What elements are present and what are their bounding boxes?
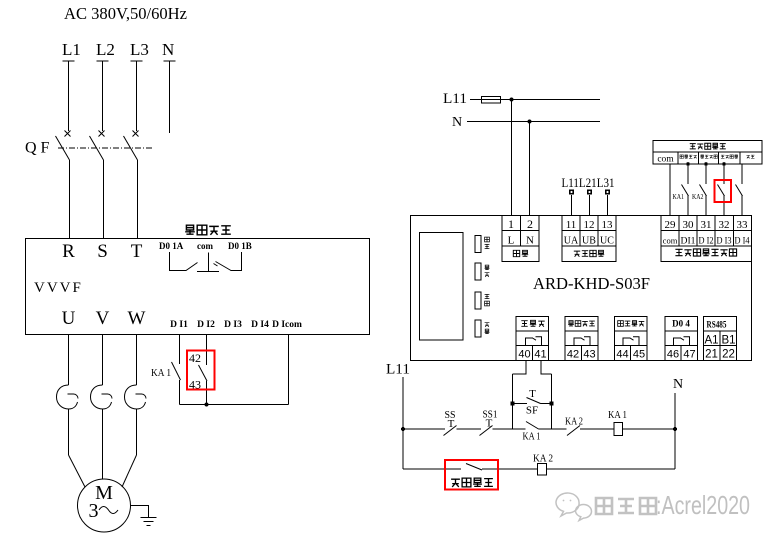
node L3 terminal (131, 61, 143, 131)
svg-text:T: T (131, 241, 143, 262)
svg-text:D I3: D I3 (717, 237, 732, 247)
svg-text:D0 1B: D0 1B (228, 241, 252, 251)
svg-text:T: T (486, 418, 493, 430)
breaker QF pole 3 (124, 131, 139, 239)
svg-text:33: 33 (737, 219, 749, 231)
wire L11 to 11 (571, 195, 573, 216)
svg-text:N: N (162, 40, 174, 59)
svg-text:KA2: KA2 (692, 192, 704, 201)
svg-text:KA 2: KA 2 (565, 416, 583, 428)
svg-text:45: 45 (633, 349, 645, 361)
motor tilde (99, 507, 118, 514)
svg-text:40: 40 (518, 349, 530, 361)
svg-text:com: com (663, 236, 678, 246)
svg-text:11: 11 (566, 219, 577, 231)
wire N feed (467, 121, 600, 123)
wire W phase (136, 335, 138, 385)
svg-text:D I2: D I2 (197, 320, 215, 330)
svg-text:D Icom: D Icom (272, 320, 302, 330)
wire from terminal 40 (513, 361, 527, 375)
rail N (674, 393, 676, 469)
svg-text:32: 32 (719, 219, 730, 231)
button 3 (475, 292, 481, 309)
svg-text:KA 2: KA 2 (533, 453, 553, 465)
rung wire segment 5 (580, 428, 614, 430)
svg-text:W: W (128, 308, 146, 329)
junction dot L11 rung (401, 427, 405, 431)
contact SS1 (480, 426, 493, 436)
svg-text:L1: L1 (62, 40, 81, 59)
svg-text:D0 4: D0 4 (672, 319, 690, 329)
wire from terminal 41 (541, 361, 552, 375)
CT hook V (91, 385, 113, 409)
junction dot N rung (673, 427, 677, 431)
wire DI2 input with KA2 contact (705, 164, 707, 216)
label measure voltage (574, 250, 604, 256)
svg-text:S: S (97, 241, 108, 262)
svg-text:T: T (448, 418, 455, 430)
button label 3 (485, 294, 490, 306)
label fault output (guzhang shuchu) (185, 225, 231, 235)
wire V phase (102, 335, 104, 385)
svg-text:KA 1: KA 1 (523, 431, 541, 443)
bottom rung segment 3 (547, 468, 676, 470)
svg-text:VVVF: VVVF (34, 280, 83, 296)
svg-text:29: 29 (665, 219, 677, 231)
node L2 terminal (97, 61, 109, 131)
wire L31 to 13 (607, 195, 609, 216)
rung wire segment 2 (457, 428, 482, 430)
svg-text:AC 380V,50/60Hz: AC 380V,50/60Hz (64, 4, 187, 23)
svg-text:22: 22 (722, 349, 735, 361)
output block 42-43 (565, 317, 598, 361)
terminal L21 (587, 190, 592, 195)
svg-text:46: 46 (667, 349, 679, 361)
contact fault (VFD fault) (466, 464, 482, 471)
wire DI1 input with KA1 contact (687, 164, 689, 216)
rung wire segment 1 (403, 428, 445, 430)
svg-text:43: 43 (583, 349, 595, 361)
wire U to motor (68, 409, 70, 455)
rail L11 (402, 377, 404, 469)
svg-text:12: 12 (584, 219, 595, 231)
label input cell 3 (700, 155, 717, 159)
wire L21 to 12 (589, 195, 591, 216)
svg-text:SF: SF (526, 405, 538, 417)
contact SS (444, 426, 457, 436)
right rail of bypass (551, 374, 553, 429)
contact SF KA1 (526, 422, 539, 430)
junction dot L11 (510, 98, 514, 102)
button label 4 (485, 323, 490, 334)
svg-text:42: 42 (567, 349, 579, 361)
svg-text:KA 1: KA 1 (151, 368, 171, 379)
svg-text:B1: B1 (721, 335, 735, 347)
svg-text:UA: UA (564, 236, 579, 247)
watermark wechat icon (556, 493, 591, 521)
label run indicate block (618, 321, 645, 327)
svg-text:UB: UB (582, 236, 596, 247)
svg-text:RS485: RS485 (707, 320, 727, 330)
label fault reset block (568, 321, 595, 327)
svg-text:Q F: Q F (25, 140, 50, 157)
wire bottom bus DI (180, 404, 289, 406)
display screen (420, 233, 464, 341)
button label 2 (485, 265, 490, 277)
power terminal block 1-2 (502, 216, 539, 262)
svg-text:L2: L2 (96, 40, 115, 59)
highlight box VFD fault (445, 460, 498, 490)
switch input box (653, 141, 762, 165)
voltage terminal block 11-13 (562, 216, 616, 262)
coil KA1 (614, 423, 623, 436)
svg-text:N: N (452, 115, 462, 130)
wire to terminal 1 (511, 100, 513, 216)
label power (dianyuan) (513, 250, 528, 256)
watermark text weixinhao (596, 490, 752, 522)
wire DI3 input contact (723, 164, 725, 216)
svg-text:D I1: D I1 (170, 320, 188, 330)
svg-text:13: 13 (602, 219, 614, 231)
svg-text:L11: L11 (386, 362, 410, 378)
junction dot DI2 bus (205, 403, 209, 407)
label VFD fault (bianpin guzhang) (451, 478, 493, 487)
junction dot T left (511, 402, 515, 406)
contact KA2 NC (567, 426, 580, 436)
output block 40-41 (516, 317, 549, 361)
output block RS485 (704, 317, 737, 361)
svg-text:41: 41 (534, 349, 546, 361)
label input cell 4 (721, 155, 738, 159)
breaker QF pole 2 (90, 131, 105, 239)
svg-text:D0 1A: D0 1A (159, 241, 184, 251)
button 4 (475, 320, 481, 337)
label restart block (521, 320, 544, 326)
junction dot N (528, 120, 532, 124)
left rail of bypass (512, 374, 514, 429)
svg-text:3: 3 (89, 500, 99, 522)
node N terminal (164, 61, 176, 133)
svg-text:43: 43 (189, 378, 201, 392)
svg-text:com: com (197, 241, 213, 251)
wire V to motor (102, 409, 104, 479)
svg-text:V: V (96, 308, 110, 329)
svg-text:30: 30 (683, 219, 695, 231)
svg-text:KA 1: KA 1 (608, 409, 627, 421)
svg-text:42: 42 (189, 351, 201, 365)
button label 1 (485, 237, 490, 248)
svg-text:21: 21 (705, 349, 718, 361)
highlight box 42-43 (187, 351, 215, 390)
svg-text:T: T (529, 388, 536, 400)
motor M circle (78, 479, 131, 532)
svg-text:com: com (657, 155, 674, 165)
svg-text:L: L (508, 235, 515, 247)
svg-text:31: 31 (701, 219, 712, 231)
svg-text:N: N (526, 235, 534, 247)
svg-text:DI1: DI1 (681, 237, 696, 247)
terminal L11 (569, 190, 574, 195)
svg-text:L11: L11 (443, 91, 467, 107)
CT hook U (57, 385, 79, 409)
svg-text:D I4: D I4 (735, 237, 750, 247)
button 2 (475, 263, 481, 280)
terminal L31 (605, 190, 610, 195)
wire W to motor (136, 409, 138, 455)
svg-text:1: 1 (508, 217, 514, 231)
VVVF box (26, 239, 370, 335)
rung wire segment 6 (623, 428, 676, 430)
wire DIcom from VVVF (288, 335, 290, 405)
wire DI4 input contact (741, 164, 743, 216)
bottom rung segment 2 (482, 468, 538, 470)
svg-text:L11L21L31: L11L21L31 (562, 176, 615, 190)
label input cell 2 (680, 155, 697, 159)
wire to terminal 2 (529, 122, 531, 216)
breaker QF pole 1 (56, 131, 71, 239)
wire L11 feed (470, 99, 600, 101)
ground wire (131, 506, 149, 518)
rung wire segment 4 (539, 428, 567, 430)
label input cell 5 (746, 155, 754, 158)
junction dot DI3 (722, 162, 726, 166)
bottom rung segment 1 (403, 468, 461, 470)
svg-text:U: U (62, 308, 76, 329)
svg-text:D I4: D I4 (251, 320, 269, 330)
contact KA1 blade (172, 362, 181, 380)
wire com (669, 164, 671, 216)
junction dot DI1 (686, 162, 690, 166)
rung wire segment 3 (493, 428, 526, 430)
svg-text:KA1: KA1 (673, 192, 685, 201)
svg-text:N: N (673, 377, 683, 392)
output block 46-47 (665, 317, 698, 361)
button 1 (475, 236, 481, 253)
wire DI1 from VVVF (179, 335, 181, 364)
svg-text:A1: A1 (704, 335, 718, 347)
svg-text:D I2: D I2 (699, 237, 714, 247)
junction dot T right (550, 402, 554, 406)
highlight box DI3 contact (715, 180, 732, 202)
output block 44-45 (615, 317, 648, 361)
label switch signal input (675, 249, 736, 256)
node L1 terminal (63, 61, 75, 131)
ground symbol (141, 518, 157, 526)
svg-text::Acrel2020: :Acrel2020 (656, 490, 750, 520)
svg-text:L3: L3 (130, 40, 149, 59)
junction dot DI2 (704, 162, 708, 166)
svg-text:UC: UC (600, 236, 614, 247)
coil KA2 (538, 464, 547, 476)
svg-text:44: 44 (616, 349, 628, 361)
signal terminal block 29-33 (661, 216, 752, 262)
breaker QF linkage (58, 147, 152, 149)
svg-text:ARD-KHD-S03F: ARD-KHD-S03F (533, 274, 650, 293)
fuse FU (482, 97, 501, 104)
svg-text:2: 2 (527, 217, 533, 231)
svg-text:R: R (62, 241, 75, 262)
fault output contact D01A-com-D01B (170, 252, 242, 272)
CT hook W (125, 385, 147, 409)
contact 42-43 blade (199, 365, 208, 381)
wire U phase (68, 335, 70, 385)
svg-text:D I3: D I3 (224, 320, 242, 330)
wire DI2 from VVVF (206, 335, 208, 365)
ARD-KHD-S03F box (411, 216, 752, 361)
label switch input header (690, 143, 726, 149)
svg-text:47: 47 (683, 349, 695, 361)
contact T branch (513, 403, 528, 405)
